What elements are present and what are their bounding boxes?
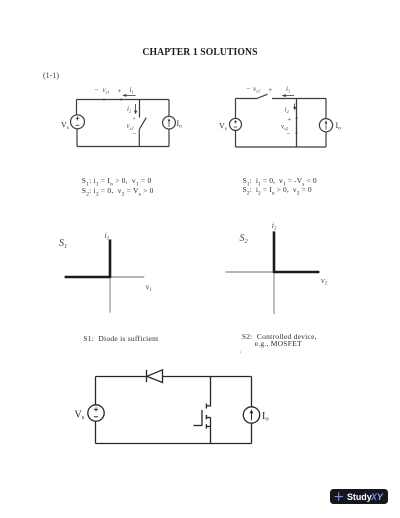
svg-text:i2: i2 [127,105,132,113]
svg-text:i2: i2 [272,221,277,232]
caption S1 diode [83,334,158,343]
svg-text:S2: S2 [240,233,249,245]
svg-text:i1: i1 [130,86,134,94]
label i2 with down arrow, circuit 2 [285,104,297,114]
wire: right vertical upper, circuit 1 [168,100,170,117]
switch S2 closed branch wire, circuit 2 [296,99,298,148]
wire: left vertical lower, circuit 1 [76,129,78,147]
label S1, graph S1 [59,238,67,250]
text block: conditions circuit 2 [243,178,317,198]
axis v2 thin left half, graph S2 [226,271,275,273]
svg-text:+: + [132,116,136,123]
MOSFET Q body stub [206,417,210,419]
svg-text:Io: Io [262,411,269,423]
svg-text:i1: i1 [105,231,110,242]
stray scan mark [240,347,242,354]
label Vs, circuit 2 [219,122,227,133]
label Io, circuit 1 [177,119,183,130]
text block: conditions circuit 1 [82,178,154,198]
label i1 with left arrow, circuit 2 [282,85,294,97]
wire: left vertical lower, bottom circuit [95,421,97,443]
switch S1 closed-contact dots on top wire [103,99,122,101]
svg-text:vs1: vs1 [253,85,260,93]
svg-text:vs1: vs1 [103,86,110,94]
label S2, graph S2 [240,233,249,245]
svg-text:XY: XY [370,492,384,502]
wire: right vertical lower, circuit 2 [325,132,327,147]
MOSFET Q channel segments [205,404,207,429]
svg-text:Io: Io [177,119,183,130]
switch S1 open blade, circuit 2 [257,94,268,98]
label i2 with down arrow, circuit 1 [127,104,137,114]
axis i1 thin lower half, graph S1 [109,277,111,313]
svg-text:Study: Study [347,492,372,502]
svg-text:Vs: Vs [61,121,69,132]
switch S2 contact dots, circuit 2 [296,117,298,134]
label v2 axis, graph S2 [321,276,328,287]
svg-text:v1: v1 [146,283,152,294]
label + vs2 - on branch, circuit 2 [281,116,292,138]
voltage source Vs, circuit 2 [230,118,242,130]
wire: right vertical upper, bottom circuit [251,377,253,408]
svg-text:−: − [287,130,291,138]
MOSFET Q gate plate [201,410,203,426]
wire: left vertical upper, circuit 1 [76,100,78,115]
svg-text:+: + [268,85,272,94]
label Vs, circuit 1 [61,121,69,132]
voltage source Vs, bottom circuit [88,405,104,421]
wire: top-right segment, circuit 2 [272,98,326,100]
voltage source Vs, circuit 1 [71,115,85,129]
wire: top-right segment from diode, bottom circuit [163,376,252,378]
svg-text:−: − [247,85,251,93]
wire: bottom of loop, circuit 1 [77,146,169,148]
label Vs, bottom circuit [75,410,85,422]
axis i2 thin lower half, graph S2 [273,272,275,314]
StudyXY logo badge [330,489,388,504]
wire: right vertical lower, bottom circuit [251,423,253,443]
wire: left vertical lower, circuit 2 [235,130,237,147]
label + vs2 - on S2 branch, circuit 1 [127,116,137,138]
label Io, circuit 2 [336,121,342,132]
characteristic thick positive v axis, graph S2 [274,271,320,274]
label - vs1 + above switch, circuit 2 [247,85,273,94]
wire: left vertical upper, bottom circuit [95,377,97,405]
MOSFET Q source stub [206,426,210,428]
current source Io, circuit 2 [319,119,332,132]
problem number (1-1) [43,71,59,80]
svg-text:S1: S1 [59,238,67,250]
switch S2 open blade, circuit 1 [139,118,146,130]
svg-text:+: + [288,116,292,124]
wire: top-left segment to diode, bottom circuit [96,376,147,378]
MOSFET Q source lead to bottom wire [210,418,212,444]
diode D (cathode bar left, triangle pointing left) [147,370,163,383]
wire: bottom of loop, circuit 2 [236,146,327,148]
characteristic thick positive i axis, graph S1 [109,240,112,279]
MOSFET Q drain lead from top wire [206,377,210,406]
svg-text:v2: v2 [321,276,328,287]
svg-text:Vs: Vs [219,122,227,133]
svg-text:i2: i2 [285,106,290,114]
label v1 axis, graph S1 [146,283,152,294]
plus icon [335,492,343,500]
title [24,46,376,58]
current source Io, bottom circuit [243,407,259,423]
svg-text:i1: i1 [286,85,290,93]
switch S2 branch upper stub, circuit 1 [139,100,141,118]
svg-text:Io: Io [336,121,342,132]
wire: right vertical lower, circuit 1 [168,129,170,146]
wire: left vertical upper, circuit 2 [235,99,237,119]
svg-text:+: + [118,86,122,95]
wire: right vertical upper, circuit 2 [325,99,327,119]
caption S2 controlled device [242,334,317,347]
svg-text:−: − [94,86,99,94]
svg-text:−: − [133,130,137,138]
axis v1 thin right half, graph S1 [110,276,144,278]
svg-text:Vs: Vs [75,410,85,422]
wire: top-left segment, circuit 2 [236,98,258,100]
label i1 with left arrow, circuit 1 [122,86,135,97]
MOSFET Q gate lead [193,425,202,427]
wire: top of loop, circuit 1 [77,99,170,101]
wire: bottom of loop, bottom circuit [96,443,252,445]
switch S2 branch lower stub, circuit 1 [138,130,140,147]
characteristic thick negative v axis, graph S1 [65,276,111,279]
current source Io, circuit 1 [163,116,176,129]
label i1 axis, graph S1 [105,231,110,242]
label Io, bottom circuit [262,411,269,423]
label - vs1 + above top wire, circuit 1 [94,86,122,95]
label i2 axis, graph S2 [272,221,277,232]
characteristic thick positive i axis, graph S2 [273,231,276,273]
